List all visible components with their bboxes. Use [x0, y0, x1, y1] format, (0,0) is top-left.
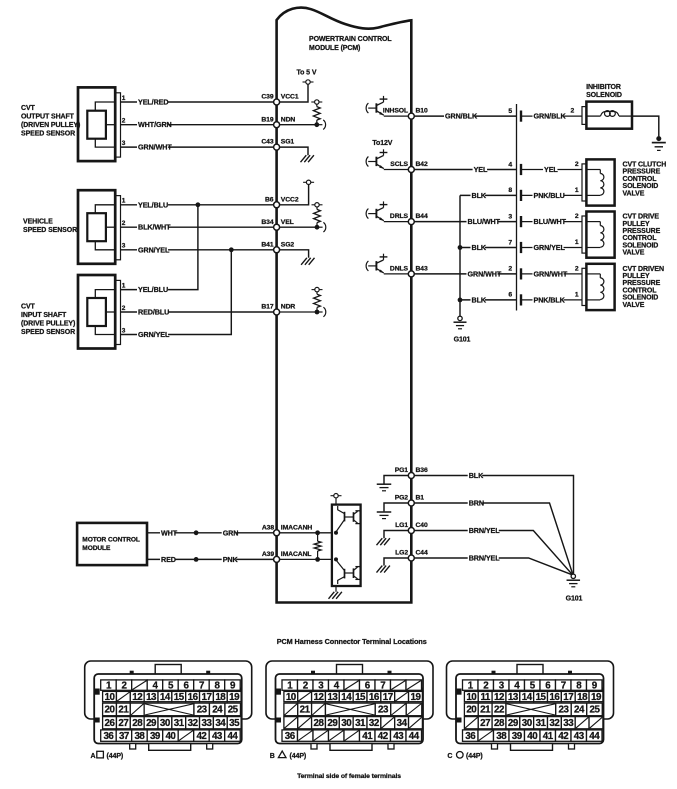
svg-text:MODULE (PCM): MODULE (PCM): [309, 45, 360, 52]
svg-text:B41: B41: [261, 241, 273, 248]
wire GRN/WHT B43 to pin2: [411, 269, 516, 278]
wire label PNK/BLK solenoid side: [533, 295, 566, 304]
transistor DNLS: [366, 254, 411, 274]
wire label GRN/BLK solenoid side: [533, 112, 567, 121]
svg-text:CVT CLUTCH: CVT CLUTCH: [623, 162, 667, 169]
svg-text:13: 13: [508, 692, 519, 703]
pin label B34 VEL: [261, 219, 293, 226]
To 5V supply stub VCC1: [277, 70, 317, 103]
svg-text:29: 29: [146, 718, 157, 729]
svg-text:BLK: BLK: [472, 295, 487, 304]
svg-text:Terminal side of female termin: Terminal side of female terminals: [297, 773, 401, 780]
svg-text:3: 3: [122, 243, 126, 250]
svg-text:VALVE: VALVE: [623, 190, 645, 197]
label connector A: [91, 751, 124, 760]
svg-text:43: 43: [393, 731, 404, 742]
transistor DRLS: [366, 201, 411, 221]
pin label B17 NDR: [261, 304, 295, 311]
svg-text:2: 2: [575, 161, 579, 168]
wire YEL B42 to pin4: [411, 165, 516, 174]
svg-text:34: 34: [397, 718, 408, 729]
svg-text:GRN/YEL: GRN/YEL: [138, 330, 170, 339]
pin label C39 VCC1: [261, 94, 299, 101]
label CVT input shaft speed sensor: [21, 304, 75, 337]
svg-text:13: 13: [146, 692, 157, 703]
wire BLK to pin6: [460, 295, 517, 304]
label connector C: [447, 752, 482, 760]
svg-text:14: 14: [522, 692, 533, 703]
svg-text:MODULE: MODULE: [82, 545, 111, 552]
pin label A38 IMACANH: [262, 524, 313, 531]
junction YEL/BLU: [196, 202, 201, 207]
svg-text:30: 30: [522, 718, 533, 729]
svg-text:5: 5: [508, 108, 512, 115]
pin B10: [408, 113, 414, 119]
svg-text:43: 43: [212, 731, 223, 742]
svg-text:VALVE: VALVE: [623, 302, 645, 309]
ground G101 right: [566, 574, 583, 602]
pin label PG2 B1: [395, 495, 425, 502]
footer note: [297, 773, 401, 780]
junction BLK bus pin6: [458, 298, 463, 303]
svg-text:2: 2: [122, 220, 126, 227]
svg-text:12: 12: [314, 692, 325, 703]
svg-text:B34: B34: [261, 219, 273, 226]
svg-text:PULLEY: PULLEY: [623, 221, 650, 228]
pin B41: [274, 247, 280, 253]
svg-text:YEL/BLU: YEL/BLU: [138, 200, 168, 209]
svg-text:44: 44: [589, 731, 600, 742]
svg-text:B36: B36: [416, 467, 428, 474]
svg-text:40: 40: [165, 731, 176, 742]
pin label LG1 C40: [395, 522, 428, 529]
svg-text:36: 36: [285, 731, 296, 742]
svg-text:1: 1: [575, 292, 579, 299]
section title: [277, 637, 427, 646]
svg-text:GRN/WHT: GRN/WHT: [468, 269, 502, 278]
svg-text:21: 21: [480, 705, 491, 716]
svg-text:39: 39: [150, 731, 161, 742]
svg-text:43: 43: [574, 731, 585, 742]
svg-text:YEL: YEL: [544, 165, 558, 174]
pin B17: [274, 309, 280, 315]
svg-text:36: 36: [103, 731, 114, 742]
pin label DRLS B44: [390, 213, 428, 220]
PCM module outline: [277, 8, 412, 603]
svg-text:12: 12: [132, 692, 143, 703]
svg-text:RED/BLU: RED/BLU: [138, 308, 169, 317]
svg-text:CONTROL: CONTROL: [623, 287, 658, 294]
svg-text:GRN/WHT: GRN/WHT: [138, 143, 172, 152]
svg-text:27: 27: [118, 718, 129, 729]
wire label GRN/YEL solenoid side: [533, 243, 566, 252]
pin label PG1 B36: [395, 467, 428, 474]
supply stub VCC2: [277, 180, 315, 205]
ground PG1: [377, 476, 412, 491]
ground CAN: [329, 586, 342, 599]
ground LG2: [377, 558, 412, 573]
svg-text:A: A: [91, 753, 96, 760]
svg-text:C40: C40: [416, 522, 428, 529]
svg-text:2: 2: [571, 108, 575, 115]
resistor CAN termination: [314, 530, 321, 561]
svg-text:YEL: YEL: [474, 165, 488, 174]
connector pin 5: [508, 108, 582, 122]
svg-text:OUTPUT SHAFT: OUTPUT SHAFT: [21, 114, 75, 121]
connector pin 7: [508, 239, 582, 253]
connector B 44P: [266, 661, 433, 750]
sensor CVT output shaft speed sensor: [78, 87, 121, 161]
pin label B6 VCC2: [265, 196, 299, 203]
svg-text:NDR: NDR: [281, 304, 296, 311]
wire YEL/RED pin1 to C39: [121, 95, 277, 107]
svg-text:GRN/YEL: GRN/YEL: [534, 243, 566, 252]
svg-text:25: 25: [590, 705, 601, 716]
ground SG1: [277, 147, 314, 162]
wire BLK PG1 to G101: [411, 471, 573, 574]
connector pin 3: [508, 213, 582, 227]
pin label B41 SG2: [261, 241, 294, 248]
svg-text:31: 31: [536, 718, 547, 729]
svg-text:19: 19: [410, 692, 421, 703]
svg-text:A38: A38: [262, 524, 274, 531]
pin label LG2 C44: [395, 550, 428, 557]
svg-text:BRN: BRN: [469, 499, 484, 508]
wire BRN PG2 to G101: [411, 499, 572, 574]
svg-text:PNK/BLK: PNK/BLK: [534, 295, 566, 304]
svg-text:B10: B10: [416, 108, 428, 115]
svg-text:42: 42: [558, 731, 569, 742]
supply stub CAN: [331, 494, 342, 505]
wire WHT/GRN pin2 to B19: [121, 118, 277, 130]
svg-text:4: 4: [508, 161, 512, 168]
wire BLK to pin8: [460, 191, 517, 200]
svg-text:SOLENOID: SOLENOID: [623, 183, 659, 190]
svg-text:38: 38: [496, 731, 507, 742]
svg-text:VALVE: VALVE: [623, 250, 645, 257]
svg-text:2: 2: [575, 266, 579, 273]
svg-text:10: 10: [466, 692, 477, 703]
svg-text:POWERTRAIN CONTROL: POWERTRAIN CONTROL: [309, 36, 392, 43]
svg-text:SPEED SENSOR: SPEED SENSOR: [21, 329, 75, 336]
label CVT clutch pressure control solenoid valve: [623, 162, 667, 198]
svg-text:IMACANH: IMACANH: [281, 524, 313, 531]
svg-text:12: 12: [494, 692, 505, 703]
svg-text:G101: G101: [566, 596, 583, 603]
svg-text:29: 29: [508, 718, 519, 729]
label vehicle speed sensor: [23, 219, 77, 235]
svg-text:G101: G101: [454, 337, 471, 344]
sensor CVT input shaft speed sensor: [78, 275, 121, 349]
svg-text:16: 16: [369, 692, 380, 703]
motor control module box: [77, 523, 147, 565]
svg-text:A39: A39: [262, 551, 274, 558]
svg-text:C44: C44: [416, 550, 428, 557]
pin B43: [408, 271, 414, 277]
svg-text:B: B: [270, 753, 275, 760]
ground inhibitor solenoid: [632, 116, 666, 150]
svg-text:27: 27: [480, 718, 491, 729]
svg-text:30: 30: [341, 718, 352, 729]
svg-text:To 5 V: To 5 V: [297, 70, 317, 77]
svg-text:VEHICLE: VEHICLE: [23, 219, 53, 226]
svg-text:PRESSURE: PRESSURE: [623, 228, 661, 235]
wire GRN/BLK B10 to pin5: [411, 112, 516, 121]
svg-text:32: 32: [188, 718, 199, 729]
svg-text:1: 1: [575, 239, 579, 246]
pin B19: [274, 122, 280, 128]
svg-text:24: 24: [212, 705, 223, 716]
svg-text:(44P): (44P): [290, 753, 307, 760]
label CVT output shaft speed sensor: [21, 105, 80, 138]
wire BRN/YEL LG2 to G101: [411, 554, 571, 575]
inline connector bar: [516, 104, 518, 311]
CVT clutch pressure control solenoid valve: [575, 159, 615, 205]
svg-text:10: 10: [105, 692, 116, 703]
svg-text:2: 2: [575, 213, 579, 220]
wire RED/BLU pin2 to B17: [121, 305, 277, 317]
svg-text:25: 25: [228, 705, 239, 716]
svg-text:20: 20: [105, 705, 116, 716]
svg-text:44: 44: [409, 731, 420, 742]
svg-text:CVT DRIVE: CVT DRIVE: [623, 214, 660, 221]
svg-text:21: 21: [300, 705, 311, 716]
svg-text:42: 42: [196, 731, 207, 742]
svg-text:GRN/WHT: GRN/WHT: [534, 269, 568, 278]
svg-text:41: 41: [362, 731, 373, 742]
svg-text:1: 1: [122, 282, 126, 289]
svg-text:24: 24: [574, 705, 585, 716]
connector C 44P: [447, 661, 614, 750]
svg-text:B17: B17: [261, 304, 273, 311]
svg-text:22: 22: [494, 705, 505, 716]
svg-text:44: 44: [227, 731, 238, 742]
svg-text:23: 23: [559, 705, 570, 716]
wire WHT GRN to A38: [147, 528, 277, 537]
wire label YEL solenoid side: [543, 165, 558, 174]
svg-text:VCC2: VCC2: [281, 196, 299, 203]
ground G101 left: [454, 316, 471, 343]
pin label C43 SG1: [261, 139, 294, 146]
svg-text:8: 8: [508, 187, 512, 194]
PCM title: [309, 36, 392, 52]
svg-text:YEL/BLU: YEL/BLU: [138, 285, 168, 294]
resistor pull-up VEL: [277, 203, 326, 232]
svg-text:17: 17: [383, 692, 394, 703]
svg-text:C: C: [447, 753, 452, 760]
svg-text:BRN/YEL: BRN/YEL: [469, 554, 501, 563]
transistor CAN low: [334, 557, 360, 584]
svg-text:(44P): (44P): [466, 753, 483, 760]
svg-text:1: 1: [122, 198, 126, 205]
label connector B: [270, 751, 306, 760]
svg-text:GRN: GRN: [223, 528, 239, 537]
connector A 44P: [85, 661, 252, 750]
connector pin 2: [508, 266, 582, 280]
svg-text:NDN: NDN: [281, 116, 296, 123]
svg-text:7: 7: [508, 239, 512, 246]
svg-text:PG2: PG2: [395, 495, 409, 502]
pin C39: [274, 99, 280, 105]
svg-text:VEL: VEL: [281, 219, 294, 226]
svg-text:B1: B1: [416, 495, 425, 502]
pin B42: [408, 167, 414, 173]
svg-text:B19: B19: [261, 116, 273, 123]
pin A38: [274, 530, 280, 536]
resistor pull-up NDR: [277, 287, 326, 316]
svg-text:DNLS: DNLS: [390, 266, 409, 273]
svg-text:INHSOL: INHSOL: [383, 108, 408, 115]
ground SG2: [277, 250, 315, 265]
pin B44: [408, 219, 414, 225]
svg-text:37: 37: [119, 731, 130, 742]
svg-text:6: 6: [508, 292, 512, 299]
transistor INHSOL: [366, 96, 411, 116]
pin C40: [408, 528, 414, 534]
sensor vehicle speed sensor: [78, 190, 121, 264]
wire BRN/YEL LG1 to G101: [411, 526, 572, 574]
svg-text:(DRIVEN PULLEY): (DRIVEN PULLEY): [21, 122, 80, 129]
pin label SCLS B42: [390, 161, 428, 168]
svg-text:26: 26: [105, 718, 116, 729]
svg-text:33: 33: [201, 718, 212, 729]
label CVT driven pulley pressure control solenoid valve: [623, 266, 664, 309]
svg-text:11: 11: [480, 692, 490, 703]
svg-text:PRESSURE: PRESSURE: [623, 169, 661, 176]
wire label PNK/BLU solenoid side: [533, 191, 565, 200]
svg-text:MOTOR CONTROL: MOTOR CONTROL: [82, 537, 140, 544]
svg-text:29: 29: [327, 718, 338, 729]
junction GRN/YEL: [229, 247, 234, 252]
svg-text:17: 17: [563, 692, 574, 703]
svg-text:CONTROL: CONTROL: [623, 176, 658, 183]
svg-text:14: 14: [160, 692, 171, 703]
wire label GRN/WHT solenoid side: [533, 269, 568, 278]
svg-text:PCM Harness Connector Terminal: PCM Harness Connector Terminal Locations: [277, 637, 427, 646]
wire BLK/WHT pin2 to B34: [121, 220, 277, 232]
svg-text:GRN/BLK: GRN/BLK: [534, 112, 567, 121]
svg-text:SCLS: SCLS: [390, 161, 408, 168]
svg-text:BLU/WHT: BLU/WHT: [468, 217, 501, 226]
svg-text:PNK/BLU: PNK/BLU: [534, 191, 565, 200]
junction BLK bus pin7: [458, 245, 463, 250]
wire RED PNK to A39: [147, 555, 277, 564]
svg-text:(44P): (44P): [107, 753, 124, 760]
pin B34: [274, 224, 280, 230]
wire BLK ground bus: [459, 195, 461, 318]
svg-text:CVT: CVT: [21, 304, 36, 311]
svg-text:BRN/YEL: BRN/YEL: [469, 526, 501, 535]
svg-text:CVT: CVT: [21, 105, 36, 112]
svg-text:B6: B6: [265, 196, 274, 203]
svg-text:19: 19: [229, 692, 240, 703]
label inhibitor solenoid: [586, 84, 622, 99]
svg-text:40: 40: [527, 731, 538, 742]
svg-text:35: 35: [229, 718, 240, 729]
pin A39: [274, 556, 280, 562]
wire IMACANL internal: [277, 558, 332, 560]
svg-text:39: 39: [512, 731, 523, 742]
svg-text:CONTROL: CONTROL: [623, 235, 658, 242]
svg-text:LG2: LG2: [395, 550, 408, 557]
wire GRN/YEL input sensor pin3: [121, 250, 232, 339]
svg-text:SPEED SENSOR: SPEED SENSOR: [21, 131, 75, 138]
svg-text:VCC1: VCC1: [281, 94, 299, 101]
ground PG2: [377, 503, 412, 519]
svg-text:31: 31: [355, 718, 366, 729]
wire GRN/YEL pin3 to B41: [121, 243, 277, 255]
CVT drive pulley pressure control solenoid valve: [575, 212, 615, 258]
svg-text:10: 10: [286, 692, 297, 703]
wire YEL/BLU pin1 to B6: [121, 198, 277, 210]
svg-text:PG1: PG1: [395, 467, 409, 474]
svg-text:36: 36: [465, 731, 476, 742]
svg-text:16: 16: [549, 692, 560, 703]
svg-text:PNK: PNK: [223, 555, 239, 564]
CAN transceiver box: [332, 505, 361, 586]
svg-text:GRN/YEL: GRN/YEL: [138, 245, 170, 254]
label CVT drive pulley pressure control solenoid valve: [623, 214, 661, 257]
svg-text:32: 32: [369, 718, 380, 729]
svg-text:42: 42: [378, 731, 389, 742]
transistor SCLS: [366, 140, 411, 170]
ground LG1: [377, 531, 412, 546]
svg-text:15: 15: [536, 692, 547, 703]
svg-text:SG1: SG1: [281, 139, 295, 146]
pin B36: [408, 473, 414, 479]
svg-text:19: 19: [591, 692, 602, 703]
svg-text:PRESSURE: PRESSURE: [623, 280, 661, 287]
svg-text:SOLENOID: SOLENOID: [623, 295, 659, 302]
svg-text:1: 1: [575, 187, 579, 194]
svg-text:SOLENOID: SOLENOID: [586, 92, 622, 99]
svg-text:WHT/GRN: WHT/GRN: [138, 120, 172, 129]
pin label A39 IMACANL: [262, 551, 312, 558]
svg-text:(DRIVE PULLEY): (DRIVE PULLEY): [21, 321, 75, 328]
svg-text:B42: B42: [416, 161, 428, 168]
svg-text:30: 30: [160, 718, 171, 729]
svg-text:WHT: WHT: [161, 528, 178, 537]
svg-text:BLK/WHT: BLK/WHT: [138, 223, 171, 232]
svg-text:33: 33: [563, 718, 574, 729]
svg-text:28: 28: [314, 718, 325, 729]
svg-text:SOLENOID: SOLENOID: [623, 242, 659, 249]
svg-text:31: 31: [174, 718, 185, 729]
svg-text:23: 23: [197, 705, 208, 716]
svg-text:B43: B43: [416, 266, 428, 273]
svg-text:28: 28: [494, 718, 505, 729]
svg-text:BLU/WHT: BLU/WHT: [534, 217, 567, 226]
svg-text:3: 3: [508, 213, 512, 220]
svg-text:DRLS: DRLS: [390, 213, 409, 220]
svg-text:To12V: To12V: [372, 140, 392, 147]
wire BLU/WHT B44 to pin3: [411, 217, 516, 226]
svg-text:21: 21: [118, 705, 129, 716]
svg-text:YEL/RED: YEL/RED: [138, 98, 168, 107]
svg-text:BLK: BLK: [472, 243, 487, 252]
svg-text:2: 2: [508, 266, 512, 273]
svg-text:38: 38: [134, 731, 145, 742]
svg-text:28: 28: [132, 718, 143, 729]
connector pin 6: [508, 292, 582, 306]
pin label DNLS B43: [390, 266, 428, 273]
pin B1: [408, 500, 414, 506]
svg-text:23: 23: [378, 705, 389, 716]
pin C44: [408, 555, 414, 561]
svg-text:LG1: LG1: [395, 522, 408, 529]
svg-text:16: 16: [188, 692, 199, 703]
wire label BLU/WHT solenoid side: [533, 217, 567, 226]
